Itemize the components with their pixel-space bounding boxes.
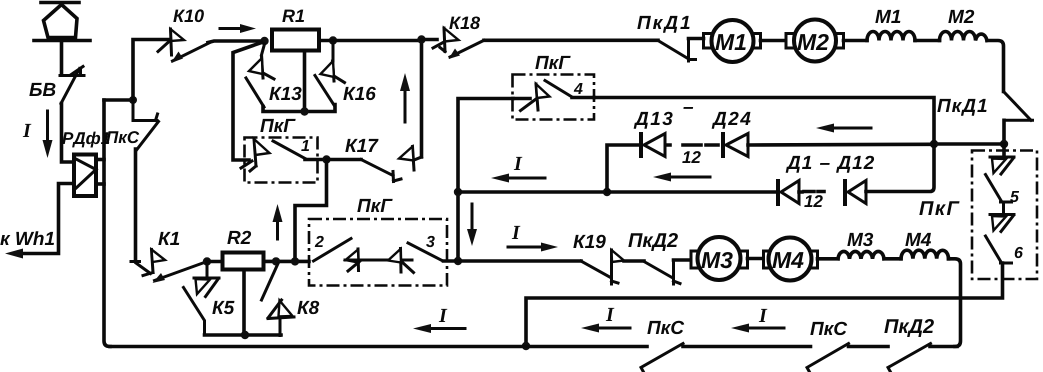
contact 4 <box>513 81 594 111</box>
wire coil M4 corner down to bus <box>949 259 961 347</box>
label K17 <box>345 139 378 152</box>
label K1 <box>158 232 179 245</box>
label PkD1 top <box>637 16 689 33</box>
middle wire <box>345 259 412 262</box>
wire to Wh1 <box>20 184 74 254</box>
contact K18 <box>422 28 485 59</box>
node left of R1 <box>260 37 268 45</box>
label I (bottom 2) <box>606 308 615 321</box>
dashdot box PkG 4 <box>513 75 595 120</box>
contact K8 <box>262 264 295 336</box>
label I (bottom 3) <box>759 309 768 322</box>
label R1 <box>282 10 304 22</box>
node y192 left <box>454 188 462 196</box>
diode D24 <box>723 132 748 158</box>
bottom current arrows <box>413 324 465 333</box>
diode D12 <box>845 179 866 206</box>
label 6 <box>1015 247 1023 258</box>
contact 5 <box>986 157 1015 212</box>
label PkG box23 <box>357 199 392 212</box>
label K13 <box>269 87 301 100</box>
label K10 <box>173 9 204 22</box>
label 5 <box>1010 191 1019 202</box>
label PkD1 right <box>937 99 986 116</box>
label D13 <box>634 112 673 129</box>
label 4 <box>574 83 583 94</box>
breaker BV <box>60 67 84 104</box>
wire to coil M1 <box>844 39 868 43</box>
wire between coils M3 M4 <box>884 257 901 261</box>
wire contact6 down and left along y298 <box>526 263 1003 347</box>
contact K16 <box>315 44 345 105</box>
R2 tap <box>242 270 246 336</box>
label K18 <box>449 16 480 29</box>
contact 1 <box>241 139 327 171</box>
current arrow up (right of K16) <box>400 73 410 122</box>
contact 6 <box>986 215 1015 264</box>
dashed link 12 <box>666 143 718 147</box>
motor M3 <box>691 237 748 280</box>
label PkG box4 <box>535 56 570 69</box>
wire to right corner down <box>987 41 1004 92</box>
wire box4 left to vertical x458 <box>458 99 513 262</box>
bus blade PkS1 <box>641 344 683 372</box>
current arrow down x472 <box>467 204 477 246</box>
node R2 tap/K5/K8 <box>241 331 249 339</box>
contact K10 <box>158 29 211 63</box>
current arrow right y247 <box>508 243 558 252</box>
label M3 coil <box>847 233 873 246</box>
contact K5 <box>184 262 220 336</box>
wire coils <box>915 39 940 43</box>
current arrow left y178 <box>491 174 545 183</box>
label K8 <box>297 301 319 314</box>
label 12 upper <box>682 151 700 163</box>
switch PkD1 (top) <box>658 39 704 62</box>
wire row M3 left <box>458 259 581 263</box>
bus blade PkS2 <box>807 344 849 372</box>
label M2 coil <box>948 10 974 23</box>
wire M3-M4 <box>748 257 763 261</box>
switch K19 <box>581 250 624 284</box>
wire to coil M3 <box>818 257 839 261</box>
inductor M2 <box>940 32 988 41</box>
wire node up to top wire <box>133 40 168 101</box>
wire BV to RDf1 <box>62 104 75 163</box>
wire node1004 down to box56 <box>1002 144 1006 156</box>
inductor M3 <box>838 251 884 258</box>
node K8 tap <box>272 257 280 265</box>
current arrow right (top) <box>220 24 256 33</box>
label 2 <box>315 236 324 247</box>
wire y100 to PkS node <box>104 98 133 102</box>
wire y192 <box>458 190 607 194</box>
motor M4 <box>764 238 818 281</box>
wire K1 node to R2 <box>207 260 223 264</box>
label M1 coil <box>875 10 900 23</box>
label M1 motor <box>715 34 745 50</box>
label PkS <box>106 131 139 143</box>
top wire K18 to PkD1 <box>484 38 658 42</box>
inductor M1 <box>867 32 915 41</box>
node box23 entry <box>291 257 299 265</box>
dashdot box PkG 1 <box>245 138 318 183</box>
switch PkD2 (mid) <box>644 260 680 284</box>
wire K19 to PkD2 <box>624 259 644 263</box>
contact K1 <box>131 250 207 284</box>
label PkG right <box>919 201 959 215</box>
node right of R1 <box>329 36 337 44</box>
current arrow left y177 <box>653 173 710 182</box>
label M4 motor <box>772 252 803 268</box>
label K19 <box>573 235 605 248</box>
node 1004,144 <box>1000 140 1008 148</box>
motor M1 <box>704 20 761 62</box>
wire D12 right corner up <box>866 144 934 192</box>
wire M1-M2 <box>761 39 786 43</box>
wire PkD2 to M3 <box>674 258 691 262</box>
label k Wh1 <box>0 231 54 245</box>
R1 center tap <box>303 51 307 112</box>
wire R2 right <box>264 260 310 264</box>
switch PkS (left) <box>133 100 159 150</box>
switch PkD1 (right) <box>1004 93 1033 144</box>
wire R1node to box1 <box>233 43 262 161</box>
label PkS2 <box>810 322 847 335</box>
wire from node1 down-jog to row261 <box>295 160 327 262</box>
wire 1004 to 934 <box>934 142 1004 146</box>
label D1-D12 <box>786 156 874 173</box>
label RDf1 <box>62 132 109 148</box>
label K16 <box>343 87 376 100</box>
diode D13 <box>641 132 665 158</box>
node D13 branch tap <box>603 188 611 196</box>
dashes + 12 <box>799 190 824 194</box>
wire up to PkG4 line <box>594 98 934 145</box>
label I <box>23 124 32 137</box>
diode branch D13-D24 <box>607 145 639 192</box>
label PkD2 mid <box>628 233 678 251</box>
label D24 <box>712 112 751 129</box>
wire vertical x104 to bottom bus <box>104 100 110 347</box>
wire D24 to right <box>748 143 930 147</box>
label PkD2 bottom <box>884 319 934 337</box>
label dash <box>683 107 693 109</box>
node row M3 left <box>454 257 462 265</box>
label 3 <box>426 236 435 247</box>
K5/K8 bottom wire <box>205 333 282 337</box>
pantograph <box>34 3 90 76</box>
contact K17 <box>327 40 422 182</box>
label K5 <box>212 301 234 314</box>
bus blade PkD2 <box>888 344 931 372</box>
label M2 motor <box>797 34 828 50</box>
label 12 lower <box>804 195 822 207</box>
R1 bypass bottom wire <box>263 105 335 112</box>
wire PkS down to K1 <box>134 149 138 260</box>
label M4 coil <box>905 233 931 246</box>
node K1/R2 <box>203 257 211 265</box>
resistor R2 <box>223 253 264 270</box>
contact 2 <box>314 239 360 272</box>
contact K13 <box>246 44 274 107</box>
bottom bus <box>110 345 647 349</box>
current arrow left y128 <box>816 124 871 133</box>
relay RDf1 box <box>74 155 96 197</box>
dashdot box PkG 2/3 <box>309 219 447 286</box>
motor M2 <box>786 20 844 62</box>
dashdot box 5/6 <box>972 151 1037 280</box>
node bus/y298 <box>522 342 530 350</box>
current arrow up (left of box23) <box>273 204 283 239</box>
node at 133,100 <box>129 96 137 104</box>
label BV <box>29 83 55 96</box>
wire RDf1 right side <box>96 158 104 162</box>
label PkS1 <box>647 321 684 334</box>
lower diode row D1-D12 <box>607 190 776 194</box>
label I (y247 row) <box>512 226 521 239</box>
current arrow I down (top-left) <box>43 111 53 158</box>
node right of contact1 <box>322 155 330 163</box>
label PkG box1 <box>260 119 295 132</box>
wire K10 to R1 <box>208 41 264 43</box>
node 934,144 <box>930 140 938 148</box>
diode D1 <box>778 179 799 206</box>
label M3 motor <box>701 252 732 268</box>
node top K18 <box>417 35 425 43</box>
resistor R1 <box>272 30 319 51</box>
label 1 <box>301 140 309 151</box>
contact 3 <box>388 243 442 273</box>
label I (bottom 1) <box>439 309 448 322</box>
wire R1 to K18 <box>319 39 422 43</box>
label I (y178 row) <box>514 157 523 170</box>
inductor M4 <box>901 250 949 259</box>
wire box23 exit to node <box>444 259 459 263</box>
label R2 <box>227 231 251 244</box>
